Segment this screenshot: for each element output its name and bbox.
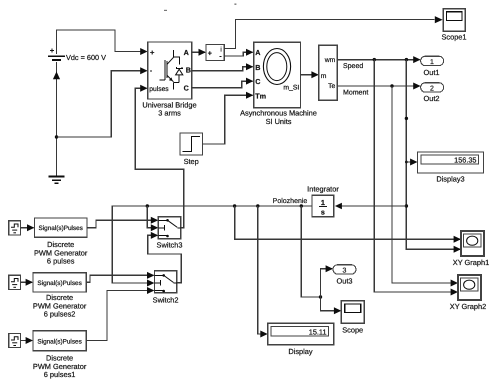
svg-text:6 pulses2: 6 pulses2 <box>44 310 76 319</box>
step icon <box>183 137 201 152</box>
svg-text:Signal(s)Pulses: Signal(s)Pulses <box>37 339 81 346</box>
wire current i output to Scope1 <box>224 20 434 49</box>
svg-text:A: A <box>255 48 260 57</box>
svg-text:wm: wm <box>324 57 336 64</box>
svg-text:Out2: Out2 <box>423 94 439 103</box>
svg-text:Tm: Tm <box>255 91 266 100</box>
wire speed into integrator input (right side) <box>340 205 406 207</box>
machine rotor ellipses <box>263 49 290 85</box>
svg-text:m_SI: m_SI <box>283 85 299 92</box>
wire Step to machine Tm <box>203 95 253 144</box>
wire PWM1 to Switch3 first input <box>87 220 157 227</box>
junction Speed at x406 <box>405 58 408 61</box>
wire Switch2 output to Switch3 third input <box>148 235 182 283</box>
wire bridge C to machine C <box>192 81 253 88</box>
block Discrete PWM Generator 2 body <box>33 273 86 292</box>
junction Polozhenie x301 <box>300 204 303 207</box>
block Display3 outer body <box>418 152 484 173</box>
block Scope1 body <box>443 9 465 31</box>
XY Graph2 screen <box>461 278 478 291</box>
wire battery plus to bridge + input <box>57 30 147 54</box>
stray mark top <box>164 10 167 11</box>
svg-text:Polozhenie: Polozhenie <box>273 197 308 205</box>
wire source2 to PWM2 <box>21 281 32 283</box>
svg-text:XY Graph1: XY Graph1 <box>453 258 489 267</box>
junction speed vertical integrator line <box>405 204 408 207</box>
wire Speed down to XY Graph1 bottom input <box>406 60 460 250</box>
wire Polozhenie from integrator output to switch2 control <box>112 206 312 283</box>
wire bridge A to current measurement <box>192 51 205 53</box>
svg-text:Vdc = 600 V: Vdc = 600 V <box>66 53 106 62</box>
junction on speed vertical <box>405 117 408 120</box>
svg-text:Speed: Speed <box>343 62 363 70</box>
svg-text:Signal(s)Pulses: Signal(s)Pulses <box>37 280 81 287</box>
wire branch down to Scope <box>321 297 341 311</box>
port label - of bridge <box>150 70 152 72</box>
wire source3 to PWM3 <box>21 340 32 342</box>
svg-text:Display3: Display3 <box>436 175 464 184</box>
Switch3 lever icon <box>158 220 180 235</box>
outport Out1 body <box>421 56 444 65</box>
junction speed vertical to Display3 <box>405 161 408 164</box>
svg-text:Signal(s)Pulses: Signal(s)Pulses <box>38 225 82 232</box>
svg-text:s: s <box>321 207 325 216</box>
svg-text:Scope1: Scope1 <box>441 33 466 42</box>
svg-text:1: 1 <box>430 59 434 66</box>
wire Polozhenie to XY Graph1 top input <box>235 206 460 239</box>
block Step body <box>180 133 203 155</box>
ground symbol <box>49 177 65 184</box>
block Universal Bridge body <box>148 42 192 99</box>
block current measurement <box>206 45 224 61</box>
svg-text:1: 1 <box>321 198 325 207</box>
source block for PWM generator 1 <box>9 221 21 235</box>
junction Moment at x392 <box>390 84 393 87</box>
wire machine m output to demux <box>301 74 318 76</box>
svg-text:Scope: Scope <box>342 326 363 335</box>
wire Polozhenie to Display <box>258 206 267 334</box>
wire branch up to Out3 <box>321 269 332 297</box>
junction Speed at x374 <box>373 58 376 61</box>
svg-text:Out3: Out3 <box>336 277 352 286</box>
wire PWM3 to Switch2 third input <box>86 291 153 341</box>
block Switch3 body <box>158 217 180 239</box>
block Display outer body <box>268 323 334 345</box>
label - of current measurement <box>219 56 221 58</box>
DC voltage source Vdc battery symbol <box>48 49 65 61</box>
wire PWM2 to Switch2 first input <box>86 275 153 282</box>
block machines measurement demux body <box>319 45 337 100</box>
svg-text:B: B <box>186 66 191 75</box>
wire Polozhenie down to Out3/Scope branch <box>301 206 320 297</box>
wire source1 to PWM1 <box>21 227 34 229</box>
wire bridge B to machine B <box>192 67 253 71</box>
wire to Display3 <box>406 161 416 163</box>
wire junction to bridge - input <box>57 71 147 137</box>
wire Moment down to XY Graph2 top input <box>392 86 457 283</box>
svg-text:pulses: pulses <box>149 86 169 93</box>
block Discrete PWM Generator 1 body <box>34 218 87 237</box>
svg-text:+: + <box>150 48 155 57</box>
svg-text:C: C <box>255 77 260 86</box>
svg-text:3: 3 <box>343 268 347 275</box>
wire current output to machine A <box>224 52 252 56</box>
block Integrator body <box>312 195 334 217</box>
wire Switch3 output to bridge pulses input <box>135 88 183 228</box>
block Scope body <box>341 301 364 324</box>
bridge IGBT icon <box>160 50 174 89</box>
block Switch2 body <box>155 271 177 293</box>
svg-text:Integrator: Integrator <box>307 184 339 193</box>
svg-text:156.35: 156.35 <box>454 155 476 164</box>
wire battery minus down to ground with junction <box>56 62 58 176</box>
source block for PWM generator 3 <box>9 334 21 348</box>
wire wm to Out1 (Speed) <box>337 59 419 61</box>
svg-text:Te: Te <box>328 83 335 90</box>
svg-text:SI Units: SI Units <box>266 117 292 126</box>
XY Graph1 screen <box>464 234 481 247</box>
junction Polozhenie x257 <box>256 204 259 207</box>
svg-text:m: m <box>321 73 327 80</box>
block XY Graph1 body <box>461 231 484 256</box>
svg-text:6 pulses1: 6 pulses1 <box>44 370 76 379</box>
svg-text:15.11: 15.11 <box>309 327 327 336</box>
block Asynchronous Machine body <box>254 42 301 108</box>
svg-text:3 arms: 3 arms <box>158 109 181 118</box>
svg-text:Switch3: Switch3 <box>157 240 183 249</box>
bridge antiparallel diode icon <box>174 57 183 83</box>
Scope screen <box>345 304 361 313</box>
svg-text:i: i <box>220 46 221 53</box>
block XY Graph2 body <box>458 275 481 300</box>
wire Polozhenie to Switch3 control <box>147 206 157 228</box>
svg-text:Switch2: Switch2 <box>153 295 179 304</box>
svg-text:Out1: Out1 <box>423 68 439 77</box>
block Discrete PWM Generator 3 body <box>33 331 86 351</box>
junction Out3/Scope branch <box>319 295 322 298</box>
junction Polozhenie x234 <box>233 204 236 207</box>
junction Polozhenie x147 <box>146 204 149 207</box>
svg-text:XY Graph2: XY Graph2 <box>450 302 486 311</box>
wire direction arrow on battery minus wire <box>53 72 60 80</box>
junction battery minus node <box>55 135 58 138</box>
svg-text:B: B <box>255 63 260 72</box>
wire Speed down to XY Graph2 bottom input <box>374 60 457 292</box>
svg-text:6 pulses: 6 pulses <box>47 257 75 266</box>
stray dot above i-wire corner <box>234 3 236 5</box>
Scope1 screen <box>446 12 462 21</box>
svg-text:A: A <box>184 48 189 57</box>
svg-text:2: 2 <box>430 86 434 93</box>
Display inner field <box>271 327 328 337</box>
outport Out3 body <box>333 265 356 274</box>
svg-text:Step: Step <box>184 157 199 166</box>
Switch2 lever icon <box>155 275 177 290</box>
outport Out2 body <box>421 83 444 92</box>
svg-text:+: + <box>208 51 212 58</box>
svg-text:C: C <box>184 83 189 92</box>
svg-text:Display: Display <box>288 347 313 356</box>
wire Te to Out2 (Moment) <box>337 85 419 87</box>
svg-text:Moment: Moment <box>343 90 368 97</box>
source block for PWM generator 2 <box>9 275 21 289</box>
Display3 inner field <box>421 155 479 164</box>
